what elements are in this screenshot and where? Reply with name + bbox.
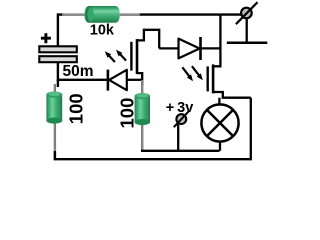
wire D2 cathode to right vertical (201, 47, 221, 49)
wire outer bottom net (55, 98, 251, 160)
channel (212, 64, 215, 93)
wire J2 stem (177, 124, 179, 151)
svg-text:+ 3v: + 3v (166, 100, 194, 116)
wire top net: cap+ to 10k to right corner (58, 15, 221, 47)
transistor Q1 (MOSFET) (131, 30, 159, 85)
gate (130, 42, 132, 71)
resistor R3 100 (right vertical) (135, 80, 150, 150)
arrows into Q2 (182, 66, 202, 81)
terminal J1 (top right) (236, 2, 258, 24)
resistor R2 100 (left vertical) (46, 84, 62, 153)
wire cap bottom to node B and LED wire (58, 62, 107, 80)
wire lamp bottom lead (219, 141, 221, 151)
diode D2 (points right) (179, 37, 201, 60)
wire inner bottom net (141, 150, 220, 152)
wire lamp top lead (218, 98, 220, 105)
svg-text:100: 100 (117, 98, 138, 129)
wire D2 anode from Q1 (159, 47, 178, 49)
drain staircase to diode D2 (137, 30, 159, 49)
svg-text:10k: 10k (90, 23, 115, 39)
source staircase (213, 92, 251, 98)
wire node B down toward R2 (55, 80, 58, 159)
resistor R1 10k (62, 6, 140, 23)
LED D1 (points left) (108, 70, 127, 91)
wire top to terminal J1 (220, 13, 242, 15)
ground (227, 19, 267, 43)
svg-text:50m: 50m (63, 63, 94, 80)
channel (136, 39, 139, 74)
svg-text:100: 100 (66, 93, 87, 124)
capacitor C1 plates (39, 46, 77, 62)
LED D1 arrows (105, 50, 126, 62)
transistor Q2 (MOSFET) (208, 15, 251, 98)
source (137, 73, 142, 85)
drain riser from top wire (213, 15, 220, 67)
lamp L1 (201, 104, 238, 141)
wire LED to M1 source junction (127, 79, 142, 81)
terminal J2 (+3v) (174, 111, 189, 127)
capacitor C1 50m : plus sign (41, 33, 51, 43)
gate (206, 66, 208, 91)
